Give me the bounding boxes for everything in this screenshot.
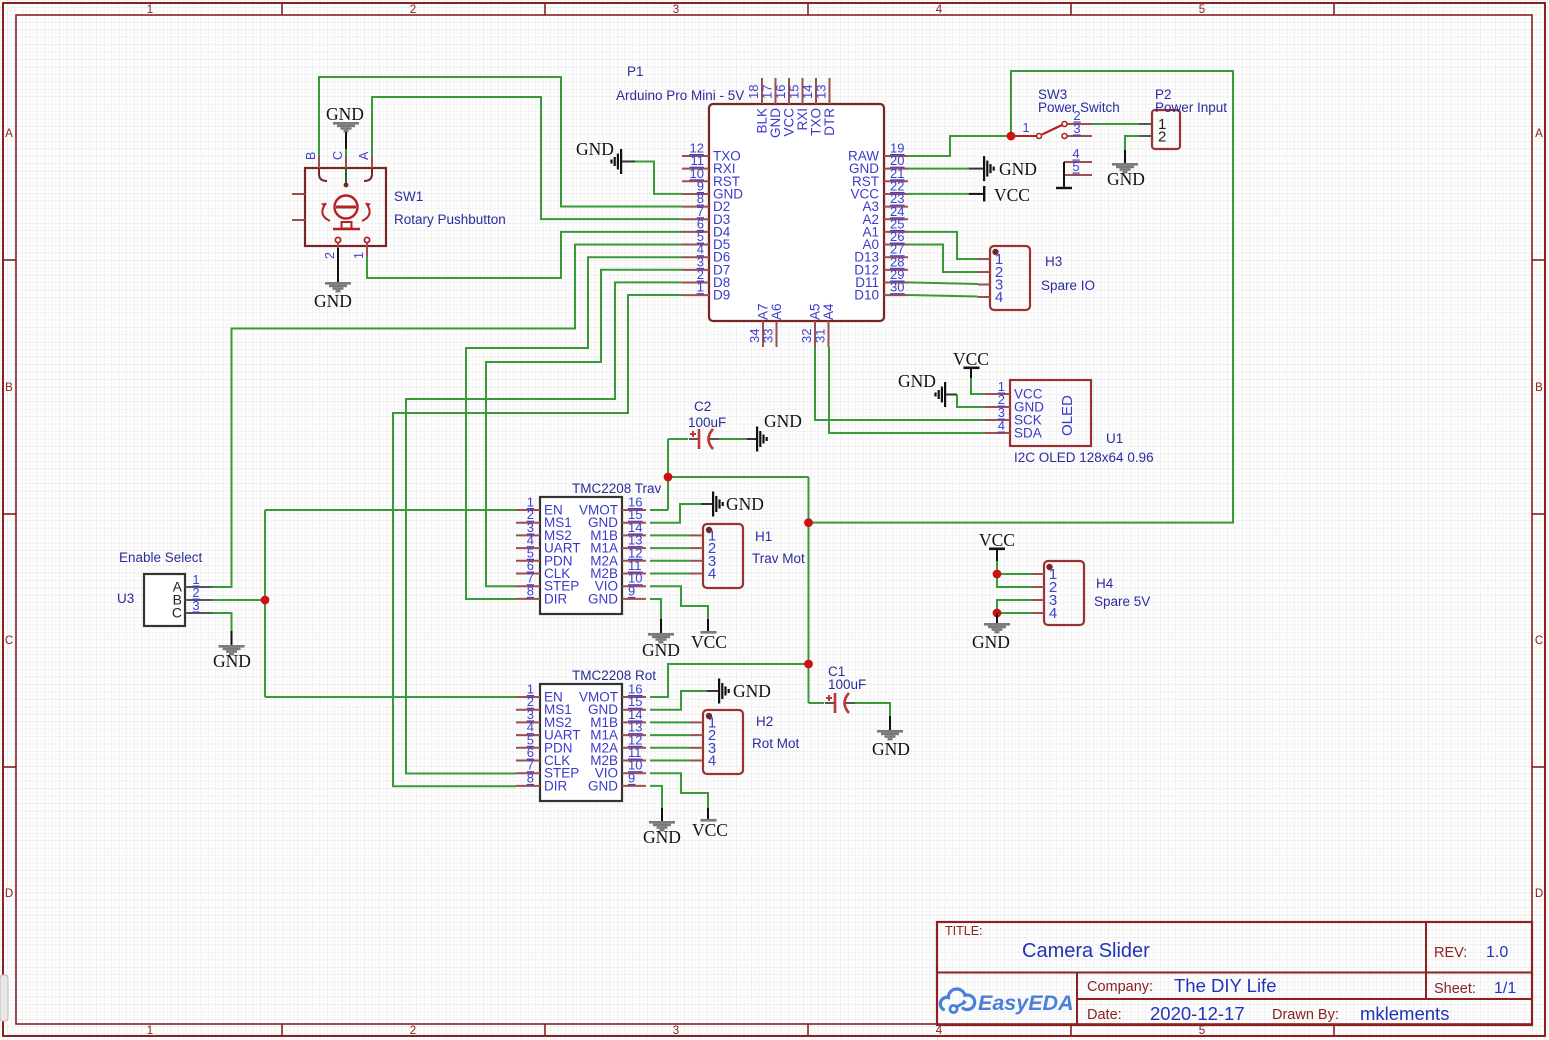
ground symbol at U3-C: [219, 631, 245, 655]
EasyEDA logo cloud: [940, 989, 974, 1013]
wire trunk to VMOT-Rot branch y=664: [650, 664, 809, 697]
svg-text:mklements: mklements: [1360, 1003, 1449, 1024]
C2 reference designator: [694, 399, 711, 414]
U1 OLED rotated label: [1059, 395, 1076, 436]
svg-text:GND: GND: [314, 291, 352, 311]
SW3 value Power Switch: [1038, 100, 1120, 115]
wire TMC-Trav GND9 to ground: [650, 599, 661, 619]
wire C2 right lead to ground: [714, 438, 747, 440]
net label GND at U3: [213, 651, 251, 671]
ground symbol at OLED GND: [934, 382, 957, 407]
net label VCC below TMC-Rot: [692, 820, 728, 840]
svg-text:2: 2: [1158, 129, 1166, 146]
wire TMC-Rot GND9 to ground: [650, 786, 662, 808]
wire P1-GND20 to ground: [908, 168, 969, 170]
svg-text:9: 9: [628, 583, 635, 598]
ground symbol at TMC-Rot GND15: [707, 679, 730, 704]
wire TMC-Trav GND15 to ground: [650, 504, 701, 523]
wire P1-VCC22 to VCC bar: [908, 193, 969, 195]
P1 top pins 18-13 BLK..DTR: [746, 78, 837, 138]
C1 reference designator: [828, 664, 845, 679]
svg-text:3: 3: [192, 598, 199, 613]
svg-text:Company:: Company:: [1087, 979, 1153, 995]
title block TITLE label: [945, 924, 983, 938]
svg-text:OLED: OLED: [1059, 395, 1076, 436]
svg-text:4: 4: [708, 566, 716, 583]
wire H4-3 to gnd trunk: [997, 600, 1031, 613]
svg-text:C: C: [331, 151, 345, 160]
wire C1 left lead: [809, 702, 825, 704]
svg-text:H3: H3: [1045, 254, 1062, 269]
wire P1-A0 to H3-2: [908, 245, 978, 273]
connector H1 Trav Mot: [690, 524, 743, 588]
svg-text:DIR: DIR: [544, 591, 568, 606]
P1 reference designator: [627, 64, 644, 79]
svg-text:1/1: 1/1: [1494, 980, 1516, 997]
connector H4 Spare 5V: [1031, 561, 1084, 625]
wire SW1-1 to P1-D4: [367, 232, 682, 278]
capacitor C1 symbol: [825, 693, 855, 713]
VCC bar at P1-VCC(22): [969, 186, 985, 202]
svg-text:A4: A4: [821, 303, 836, 320]
SW1 pin label B: [304, 152, 318, 160]
net label GND below H4: [972, 632, 1010, 652]
svg-text:Spare 5V: Spare 5V: [1094, 594, 1150, 609]
wire C1 right lead to ground: [850, 703, 890, 718]
wire VCC to OLED-VCC pin: [971, 377, 985, 394]
svg-text:5: 5: [1072, 159, 1079, 174]
svg-text:Rotary Pushbutton: Rotary Pushbutton: [394, 212, 506, 227]
wire VCC to H4-1/2: [997, 561, 1031, 587]
wire TMC-Trav M1B to H1-1: [650, 534, 690, 536]
net label GND at TMC-Trav top: [726, 494, 764, 514]
wire C2 left lead: [668, 438, 688, 440]
svg-text:8: 8: [527, 583, 534, 598]
wire VMOT vertical trunk x=808: [808, 477, 810, 703]
VCC bar below TMC-Trav VIO: [701, 619, 717, 634]
P1 value Arduino Pro Mini - 5V: [616, 88, 744, 103]
svg-text:A: A: [5, 128, 13, 140]
ground symbol below SW1 pin2: [325, 248, 351, 292]
svg-text:A: A: [357, 151, 371, 160]
svg-text:U3: U3: [117, 591, 134, 606]
C2 value 100uF: [688, 415, 726, 430]
svg-text:9: 9: [628, 770, 635, 785]
connector H3 Spare IO: [978, 246, 1030, 310]
net label VCC at P1 right: [994, 185, 1030, 205]
wire TMC-Trav VIO to VCC: [650, 586, 708, 619]
junction dot (997,613): [993, 609, 1002, 618]
wire P1-RAW to SW3 junction: [908, 136, 1011, 156]
svg-text:Rot Mot: Rot Mot: [752, 736, 800, 751]
wire SW3-2 to P2-1: [1092, 123, 1139, 125]
ground symbol at C2: [747, 427, 768, 452]
svg-text:TITLE:: TITLE:: [945, 924, 983, 938]
Drawn By value mklements: [1360, 1003, 1449, 1024]
wire TMC-Rot GND15 to ground: [650, 691, 707, 710]
svg-text:VCC: VCC: [979, 530, 1015, 550]
U3 value Enable Select: [119, 550, 203, 565]
Drawn By label: [1272, 1007, 1339, 1023]
svg-text:4: 4: [936, 4, 943, 16]
svg-text:C2: C2: [694, 399, 711, 414]
svg-text:GND: GND: [764, 411, 802, 431]
svg-text:1.0: 1.0: [1486, 944, 1508, 961]
svg-text:Power Switch: Power Switch: [1038, 100, 1120, 115]
TMC2208 Rot title: [572, 668, 656, 683]
svg-text:1: 1: [697, 280, 704, 295]
svg-text:A6: A6: [769, 303, 784, 320]
svg-text:SDA: SDA: [1014, 426, 1042, 441]
SW1 reference designator: [394, 189, 423, 204]
wire U3-B to EN trunk: [212, 599, 265, 601]
wire GND symbol to P1-GND(9): [634, 162, 682, 194]
junction dot (997,574): [993, 570, 1002, 579]
wire P1-D8 to TMC-Rot STEP: [406, 282, 682, 773]
ground symbol at TMC-Trav GND15: [701, 492, 724, 517]
wire TMC-Rot VIO to VCC: [650, 773, 708, 808]
wire trunk to C2/VMOT-Trav branch y=477: [668, 476, 809, 478]
P1 bottom pins 34-31 A7..A4: [747, 303, 836, 347]
svg-text:8: 8: [527, 770, 534, 785]
svg-text:VCC: VCC: [994, 185, 1030, 205]
P2 value Power Input: [1155, 100, 1227, 115]
net label GND at TMC-Rot top: [733, 681, 771, 701]
svg-text:B: B: [5, 382, 13, 394]
H3 value Spare IO: [1041, 278, 1095, 293]
Company value The DIY Life: [1174, 975, 1277, 996]
net label GND at P1 right: [999, 159, 1037, 179]
svg-text:GND: GND: [1107, 169, 1145, 189]
title Camera Slider: [1022, 940, 1150, 962]
svg-text:2: 2: [410, 1025, 416, 1037]
svg-text:GND: GND: [898, 371, 936, 391]
svg-text:H1: H1: [755, 529, 772, 544]
svg-text:GND: GND: [726, 494, 764, 514]
net label GND at P2: [1107, 169, 1145, 189]
ground symbol below H4: [984, 613, 1010, 633]
junction dot (265,600): [261, 596, 270, 605]
wire P1-D11 to H3-3: [908, 282, 978, 284]
ground symbol at P1-GND(20): [969, 156, 995, 181]
SW3 pin number 5: [1072, 159, 1079, 174]
svg-text:Power Input: Power Input: [1155, 100, 1227, 115]
connector H2 Rot Mot: [690, 710, 743, 774]
P2 pin name 1: [1158, 116, 1166, 133]
svg-text:B: B: [1535, 382, 1543, 394]
ground symbol below TMC-Rot GND9: [649, 808, 675, 831]
H1 value Trav Mot: [752, 551, 805, 566]
net label GND below TMC-Trav: [642, 640, 680, 660]
switch SW3 SPDT body: [1011, 122, 1092, 189]
wire TMC-Trav M2A to H1-3: [650, 560, 690, 562]
H3 reference designator: [1045, 254, 1062, 269]
IC TMC2208 Rot body and pins: [516, 682, 646, 802]
svg-text:D10: D10: [854, 288, 879, 303]
VCC bar above OLED: [964, 367, 980, 379]
ground symbol at C1: [877, 716, 903, 740]
svg-text:DIR: DIR: [544, 778, 568, 793]
svg-text:H2: H2: [756, 714, 773, 729]
wire to TMC-Trav VMOT: [650, 509, 668, 511]
svg-text:VCC: VCC: [691, 632, 727, 652]
capacitor C2 symbol: [689, 429, 719, 449]
wire TMC-Rot M2B to H2-4: [650, 760, 690, 762]
H2 reference designator: [756, 714, 773, 729]
svg-text:Sheet:: Sheet:: [1434, 981, 1476, 997]
SW1 pin label 1: [352, 252, 366, 259]
REV value 1.0: [1486, 944, 1508, 961]
wire TMC-Rot M1B to H2-1: [650, 721, 690, 723]
SW1 pin label 2: [323, 252, 337, 259]
svg-text:D: D: [1535, 888, 1543, 900]
net label GND at C2: [764, 411, 802, 431]
U1 reference designator: [1106, 431, 1123, 446]
wire switched VCC net: junction up/over/down right side: [809, 71, 1234, 523]
svg-text:13: 13: [814, 85, 829, 99]
wire SW1-C wiper from ground: [345, 149, 347, 160]
svg-text:C: C: [172, 605, 182, 621]
svg-text:Drawn By:: Drawn By:: [1272, 1007, 1339, 1023]
svg-text:GND: GND: [576, 139, 614, 159]
svg-text:D: D: [5, 888, 13, 900]
P1 right pins 19-30 RAW..D10: [848, 141, 908, 303]
SW1 pin label C: [331, 151, 345, 160]
VCC bar below TMC-Rot VIO: [701, 808, 717, 822]
net label GND below SW1: [314, 291, 352, 311]
net label GND at OLED: [898, 371, 936, 391]
svg-text:H4: H4: [1096, 576, 1114, 591]
C1 value 100uF: [828, 677, 866, 692]
net label GND above SW1: [326, 104, 364, 124]
svg-text:4: 4: [1049, 605, 1057, 622]
svg-text:Date:: Date:: [1087, 1007, 1122, 1023]
svg-text:33: 33: [761, 329, 776, 343]
P2 pin name 2: [1158, 129, 1166, 146]
P2 reference designator: [1155, 87, 1172, 102]
svg-text:I2C OLED 128x64 0.96: I2C OLED 128x64 0.96: [1014, 450, 1154, 465]
Company label: [1087, 979, 1153, 995]
junction dot (808.5,522.6): [804, 518, 813, 527]
svg-text:1: 1: [1022, 120, 1029, 135]
svg-text:4: 4: [936, 1025, 943, 1037]
H1 reference designator: [755, 529, 772, 544]
net label VCC above OLED: [953, 349, 989, 369]
SW3 pin number 4: [1072, 146, 1079, 161]
ground symbol at P2: [1112, 150, 1138, 173]
svg-text:5: 5: [1199, 1025, 1205, 1037]
svg-text:31: 31: [813, 329, 828, 343]
ground symbol above SW1 wiper: [333, 122, 359, 149]
svg-text:GND: GND: [872, 739, 910, 759]
svg-text:1: 1: [147, 4, 153, 16]
wire GND to OLED-GND pin: [957, 395, 985, 408]
title block frame: [937, 922, 1532, 1025]
svg-text:GND: GND: [643, 827, 681, 847]
svg-text:C: C: [1535, 635, 1543, 647]
wire P1-A4 to OLED SDA: [829, 347, 985, 433]
VCC bar above H4: [989, 548, 1005, 562]
svg-text:Camera Slider: Camera Slider: [1022, 940, 1150, 962]
svg-text:1: 1: [147, 1025, 153, 1037]
svg-text:30: 30: [890, 280, 904, 295]
wire P1-D7 to TMC-Trav STEP: [486, 270, 682, 587]
scrollbar nub: [0, 975, 8, 1021]
SW1 value Rotary Pushbutton: [394, 212, 506, 227]
wire TMC-Trav M1A to H1-2: [650, 547, 690, 549]
svg-text:GND: GND: [999, 159, 1037, 179]
svg-text:5: 5: [1199, 4, 1205, 16]
svg-text:D9: D9: [713, 288, 730, 303]
wire SW1-B to P1-D2: [319, 77, 682, 207]
wire P1-D10 to H3-4: [908, 295, 978, 297]
svg-text:REV:: REV:: [1434, 945, 1467, 961]
wire TMC-Rot M1A to H2-2: [650, 734, 690, 736]
IC P1 Arduino Pro Mini body: [709, 104, 884, 321]
TMC2208 Trav title: [572, 481, 662, 496]
svg-text:SW1: SW1: [394, 189, 423, 204]
wire P1-D5 to U3-A: [212, 245, 682, 588]
wire P1-D6 to TMC-Trav DIR: [466, 257, 682, 599]
junction dot (1011,136): [1007, 132, 1016, 141]
EasyEDA logo text: [978, 991, 1074, 1015]
svg-text:GND: GND: [972, 632, 1010, 652]
wire P1-A5 to OLED SCK: [815, 347, 985, 420]
IC TMC2208 Trav body and pins: [516, 495, 646, 615]
svg-text:Spare IO: Spare IO: [1041, 278, 1095, 293]
wire C2 branch vertical x=668: [667, 439, 669, 510]
svg-text:4: 4: [998, 418, 1005, 433]
svg-text:TMC2208 Trav: TMC2208 Trav: [572, 481, 662, 496]
Sheet value 1/1: [1494, 980, 1516, 997]
P1 left pins 12-1 TXO..D9: [682, 141, 743, 303]
svg-text:The DIY Life: The DIY Life: [1174, 975, 1277, 996]
junction dot (808.5,664): [804, 660, 813, 669]
svg-text:100uF: 100uF: [828, 677, 866, 692]
IC U3 Enable Select body: [144, 572, 212, 626]
svg-text:GND: GND: [213, 651, 251, 671]
svg-text:GND: GND: [642, 640, 680, 660]
svg-text:2020-12-17: 2020-12-17: [1150, 1003, 1245, 1024]
wire SW1-A to P1-D3: [372, 97, 682, 219]
svg-text:VCC: VCC: [692, 820, 728, 840]
wire EN trunk to TMC-Trav EN: [265, 509, 516, 511]
ground symbol below TMC-Trav GND9: [648, 619, 674, 643]
Sheet label: [1434, 981, 1476, 997]
wire EN trunk to TMC-Rot EN: [265, 696, 516, 698]
junction dot (668,477): [664, 473, 673, 482]
svg-text:DTR: DTR: [822, 108, 837, 136]
svg-text:Arduino Pro Mini - 5V: Arduino Pro Mini - 5V: [616, 88, 744, 103]
svg-text:Trav Mot: Trav Mot: [752, 551, 805, 566]
net label VCC below TMC-Trav: [691, 632, 727, 652]
Date label: [1087, 1007, 1122, 1023]
SW3 pin number 3: [1073, 121, 1080, 136]
svg-text:2: 2: [323, 252, 337, 259]
svg-text:VCC: VCC: [953, 349, 989, 369]
svg-text:C: C: [5, 635, 13, 647]
Date value 2020-12-17: [1150, 1003, 1245, 1024]
SW1 pin label A: [357, 151, 371, 160]
SW3 reference designator: [1038, 87, 1067, 102]
connector P2 Power Input body: [1139, 110, 1180, 149]
wire P2-2 to ground: [1125, 136, 1139, 151]
svg-text:GND: GND: [588, 591, 618, 606]
svg-text:Enable Select: Enable Select: [119, 550, 203, 565]
wire P1-D9 to TMC-Rot DIR: [393, 295, 682, 786]
SW3 pin number 1: [1022, 120, 1029, 135]
svg-text:3: 3: [673, 4, 679, 16]
svg-text:100uF: 100uF: [688, 415, 726, 430]
H2 value Rot Mot: [752, 736, 800, 751]
svg-text:4: 4: [995, 289, 1003, 306]
U3 reference designator: [117, 591, 134, 606]
svg-text:B: B: [304, 152, 318, 160]
svg-text:3: 3: [1073, 121, 1080, 136]
svg-text:GND: GND: [733, 681, 771, 701]
net label GND at P1 left: [576, 139, 614, 159]
net label GND below TMC-Rot: [643, 827, 681, 847]
H4 value Spare 5V: [1094, 594, 1150, 609]
svg-text:4: 4: [708, 753, 716, 770]
net label GND at C1: [872, 739, 910, 759]
svg-text:GND: GND: [326, 104, 364, 124]
wire P1-A1 to H3-1: [908, 232, 978, 259]
rotary encoder switch SW1 body: [292, 156, 386, 256]
svg-text:3: 3: [673, 1025, 679, 1037]
U1 value I2C OLED 128x64 0.96: [1014, 450, 1154, 465]
svg-text:U1: U1: [1106, 431, 1123, 446]
wire TMC-Trav M2B to H1-4: [650, 573, 690, 575]
svg-text:EasyEDA: EasyEDA: [978, 991, 1074, 1015]
svg-text:GND: GND: [588, 778, 618, 793]
svg-text:A: A: [1535, 128, 1543, 140]
svg-text:1: 1: [352, 252, 366, 259]
wire H4-4 to ground: [997, 612, 1031, 614]
svg-text:2: 2: [410, 4, 416, 16]
SW3 pin number 2: [1073, 108, 1080, 123]
H4 reference designator: [1096, 576, 1114, 591]
svg-text:P1: P1: [627, 64, 644, 79]
IC U1 I2C OLED body: [985, 379, 1091, 446]
REV label: [1434, 945, 1467, 961]
ground symbol at P1-GND(9): [610, 149, 635, 174]
wire VCC to H4-1: [997, 573, 1031, 575]
wire U3-C to ground: [212, 613, 232, 631]
wire TMC-Rot M2A to H2-3: [650, 747, 690, 749]
svg-text:TMC2208 Rot: TMC2208 Rot: [572, 668, 656, 683]
net label VCC above H4: [979, 530, 1015, 550]
wire EN select trunk x=265: [264, 510, 266, 697]
